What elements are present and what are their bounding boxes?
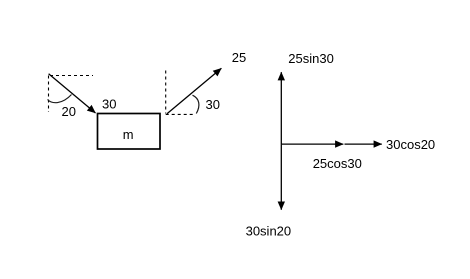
- force arrow 25 (up-right): [167, 68, 221, 114]
- dashed vertical reference line (middle): [165, 71, 167, 114]
- box mass m: [98, 114, 161, 150]
- dashed horizontal reference line (middle): [166, 113, 195, 115]
- svg-text:30: 30: [102, 97, 116, 112]
- force arrow 30 (into box top-left corner): [49, 74, 96, 113]
- svg-text:30cos20: 30cos20: [386, 137, 435, 152]
- x-axis arrow short (25cos30 component): [281, 143, 343, 145]
- svg-text:30: 30: [206, 97, 220, 112]
- svg-text:25cos30: 25cos30: [313, 156, 362, 171]
- svg-text:25: 25: [232, 50, 246, 65]
- svg-text:25sin30: 25sin30: [288, 51, 334, 66]
- angle arc 20: [48, 95, 72, 103]
- y-axis arrow down (30sin20 component): [280, 144, 282, 210]
- dashed vertical reference line (left): [48, 76, 50, 113]
- angle arc 30: [193, 95, 199, 113]
- y-axis arrow up (25sin30 component): [280, 72, 282, 144]
- svg-text:20: 20: [62, 104, 76, 119]
- x-axis arrow long (30cos20 component): [345, 143, 382, 145]
- svg-text:m: m: [123, 127, 134, 142]
- svg-text:30sin20: 30sin20: [246, 224, 292, 239]
- dashed horizontal reference line (top-left): [50, 75, 93, 77]
